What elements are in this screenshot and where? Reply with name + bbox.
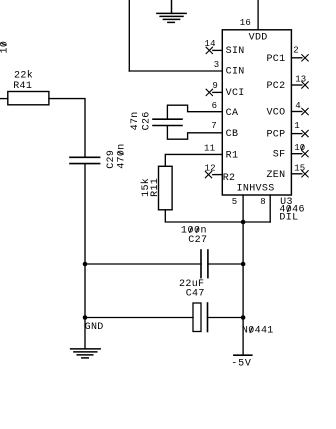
- svg-text:R41: R41: [13, 81, 32, 92]
- -5V supply bar: [234, 354, 252, 356]
- svg-text:CIN: CIN: [226, 67, 245, 78]
- svg-text:12: 12: [205, 163, 216, 173]
- pin 1 no-connect X: [302, 130, 308, 136]
- svg-text:DIL: DIL: [279, 212, 298, 223]
- svg-text:470n: 470n: [116, 143, 127, 168]
- svg-text:GND: GND: [85, 322, 104, 333]
- label C26 (rotated): [142, 111, 153, 130]
- svg-text:14: 14: [205, 39, 216, 49]
- svg-text:PCP: PCP: [266, 130, 285, 141]
- svg-text:6: 6: [212, 101, 218, 111]
- pin 9 VCI stub: [213, 91, 223, 93]
- svg-text:PC1: PC1: [266, 54, 285, 65]
- svg-text:16: 16: [240, 18, 251, 28]
- svg-text:R2: R2: [223, 173, 236, 184]
- label 15k (rotated): [140, 178, 152, 197]
- svg-text:CA: CA: [226, 108, 239, 119]
- svg-text:13: 13: [295, 74, 306, 84]
- svg-text:1: 1: [294, 121, 300, 131]
- svg-text:VCI: VCI: [226, 88, 245, 99]
- resistor R41: [8, 92, 49, 105]
- svg-text:15: 15: [294, 164, 305, 174]
- pin 2 no-connect X: [302, 55, 308, 61]
- pin 12 R2 stub: [213, 174, 223, 176]
- svg-text:11: 11: [204, 144, 215, 154]
- net label 10 (rotated): [0, 41, 10, 54]
- pin 13 no-connect X: [302, 82, 308, 88]
- resistor R11: [159, 166, 173, 210]
- svg-text:10: 10: [294, 143, 305, 153]
- wire R41 to corner: [49, 99, 85, 157]
- svg-text:SF: SF: [273, 150, 286, 161]
- svg-text:2: 2: [293, 46, 299, 56]
- capacitor C29: [70, 157, 100, 163]
- wire VDD pin 16 from top edge: [257, 0, 259, 30]
- pin 15 ZEN stub: [291, 173, 301, 175]
- svg-text:N0441: N0441: [242, 326, 274, 337]
- svg-text:VCO: VCO: [266, 108, 285, 119]
- junction C27 left: [83, 262, 88, 267]
- junction dots: [83, 220, 246, 320]
- wire C29 down to GND junction and ground: [84, 164, 86, 348]
- pin 2 PC1 stub: [291, 57, 301, 59]
- svg-text:CB: CB: [226, 129, 239, 140]
- svg-text:3: 3: [214, 60, 220, 70]
- svg-text:7: 7: [211, 121, 217, 131]
- pin 13 PC2 stub: [291, 84, 301, 86]
- wire pin 8 down: [269, 195, 271, 222]
- capacitor C47 (polarized): [193, 303, 201, 332]
- svg-text:4: 4: [295, 101, 301, 111]
- junction C27 right: [241, 262, 246, 267]
- svg-text:R11: R11: [150, 178, 161, 197]
- capacitor C27: [201, 250, 208, 278]
- junction GND: [83, 315, 88, 320]
- pin 4 VCO stub: [291, 111, 301, 113]
- wire GND row to C47: [85, 317, 193, 319]
- pin 15 no-connect X: [302, 171, 308, 177]
- label C29 (rotated): [106, 150, 117, 169]
- wire vertical from top edge to CIN corner: [128, 0, 130, 71]
- capacitor C26: [153, 119, 182, 125]
- wire horizontal into pin 3 CIN: [129, 70, 222, 72]
- wire C27 row: [85, 263, 201, 265]
- pin 12 no-connect X: [205, 171, 211, 177]
- wire pin 6 CA jog to C26 top: [167, 105, 222, 119]
- junction C47 right / N0441: [241, 315, 246, 320]
- svg-text:VDD: VDD: [249, 32, 268, 43]
- ground (top): [157, 0, 186, 22]
- svg-text:ZEN: ZEN: [266, 170, 285, 181]
- svg-text:8: 8: [260, 197, 266, 207]
- pin 9 no-connect X: [206, 89, 212, 95]
- wire pin 11 R1 to R11: [165, 154, 222, 166]
- junction pin5/pin8/R11 rail: [241, 220, 246, 225]
- svg-text:5: 5: [232, 197, 238, 207]
- svg-text:C27: C27: [188, 235, 207, 246]
- pin 1 PCP stub: [291, 133, 301, 135]
- svg-text:9: 9: [212, 81, 218, 91]
- chip U3 body: [222, 30, 291, 195]
- svg-text:C47: C47: [186, 288, 205, 299]
- label 47n (rotated): [130, 111, 141, 130]
- label 470n (rotated): [116, 143, 127, 168]
- wire left edge into R41: [0, 98, 8, 100]
- svg-text:R1: R1: [226, 150, 239, 161]
- svg-text:-5V: -5V: [231, 359, 251, 370]
- svg-text:INHVSS: INHVSS: [237, 184, 275, 195]
- pin 10 no-connect X: [302, 151, 308, 157]
- pin 4 no-connect X: [302, 108, 308, 114]
- pin 10 SF stub: [291, 153, 301, 155]
- wire pin 7 CB jog to C26 bottom: [167, 126, 222, 139]
- pin 14 no-connect X: [206, 47, 212, 53]
- svg-text:C26: C26: [142, 111, 153, 130]
- svg-text:PC2: PC2: [266, 81, 285, 92]
- wire pin 5 down long vertical to -5V: [242, 195, 244, 354]
- svg-text:22k: 22k: [14, 69, 33, 81]
- label R11 (rotated): [150, 178, 161, 197]
- ground (bottom): [71, 349, 101, 358]
- pin 14 SIN stub: [213, 49, 223, 51]
- svg-text:47n: 47n: [130, 111, 141, 130]
- wire R11 bottom to rail: [165, 210, 270, 222]
- svg-text:SIN: SIN: [226, 46, 245, 57]
